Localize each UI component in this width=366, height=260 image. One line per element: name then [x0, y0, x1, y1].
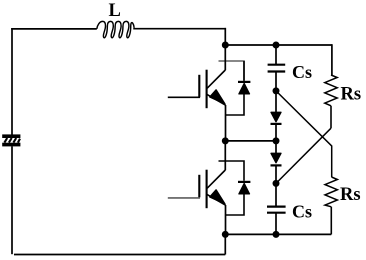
wire mid node to diode D4	[275, 141, 277, 153]
IGBT Q2 body bar	[206, 170, 208, 209]
freewheel diode D1 loop bottom wire	[226, 94, 245, 115]
wire bottom bus y234	[225, 233, 331, 235]
wire top-right horizontal	[134, 28, 226, 29]
junction dot bus-Cs top	[273, 42, 280, 49]
IGBT Q2 collector diagonal	[207, 170, 225, 188]
wire diagonal node B to Rs top	[276, 128, 331, 183]
label L	[109, 1, 121, 21]
capacitor Cs bottom plates	[267, 207, 286, 213]
wire mid horizontal	[225, 140, 276, 142]
wire rail to bottom	[224, 234, 226, 254]
wire left vertical lower	[11, 146, 13, 254]
IGBT Q2 gate lead	[168, 197, 200, 199]
clamp diode D4 cathode bar	[271, 164, 282, 166]
freewheel diode D2 loop top wire	[219, 161, 245, 181]
inductor L	[97, 21, 134, 37]
svg-text:L: L	[109, 1, 121, 21]
junction dot bus-Cs bottom	[273, 231, 280, 238]
freewheel diode D1 triangle	[239, 83, 250, 94]
resistor Rs top zigzag	[325, 75, 337, 106]
wire top bus y45	[225, 44, 332, 46]
wire D3 to mid node	[275, 124, 277, 141]
wire node A to diode D3	[275, 91, 277, 112]
IGBT Q2 gate bar	[198, 175, 200, 198]
wire Q1 emitter vertical	[225, 105, 227, 141]
source element (bottom bar)	[2, 143, 20, 147]
IGBT Q1 emitter diagonal	[207, 94, 226, 105]
wire node B to Cs bottom	[275, 183, 277, 206]
freewheel diode D1 cathode bar	[238, 81, 250, 83]
svg-text:Cs: Cs	[292, 62, 312, 82]
wire center rail mid segment	[224, 141, 226, 170]
wire top-left horizontal	[11, 28, 97, 30]
wire D4 to node B	[275, 166, 277, 184]
label Rs bottom	[340, 185, 361, 205]
source element hatch strokes	[4, 138, 20, 143]
IGBT Q2 emitter arrow	[210, 190, 225, 204]
svg-text:Cs: Cs	[292, 202, 312, 222]
junction dot top rail	[222, 42, 229, 49]
wire Rs top to diag	[330, 106, 332, 128]
IGBT Q1 body bar	[206, 70, 208, 109]
junction dot mid node	[273, 137, 280, 144]
svg-text:Rs: Rs	[340, 185, 361, 205]
freewheel diode D1 loop top wire	[219, 61, 245, 81]
clamp diode D4 triangle	[271, 153, 281, 163]
wire Cs top to node	[275, 72, 277, 92]
svg-text:Rs: Rs	[341, 85, 362, 105]
wire center rail top segment	[224, 28, 226, 70]
IGBT Q1 gate lead	[168, 96, 200, 98]
freewheel diode D2 loop bottom wire	[226, 194, 245, 215]
junction dot node B	[273, 180, 280, 187]
IGBT Q1 collector diagonal	[207, 70, 225, 88]
capacitor Cs top plates	[268, 65, 286, 72]
clamp diode D3 triangle	[271, 112, 281, 122]
capacitor Cs bottom lead	[275, 213, 277, 235]
wire bottom horizontal	[14, 254, 225, 256]
capacitor Cs top lead	[275, 45, 277, 64]
IGBT Q1 gate bar	[198, 75, 200, 98]
label Cs bottom	[292, 202, 312, 222]
freewheel diode D1 branch vertical	[243, 61, 245, 81]
junction dot mid rail	[222, 137, 229, 144]
label Rs top	[341, 85, 362, 105]
source element hatched (top bar)	[2, 134, 20, 138]
wire Q2 emitter vertical	[225, 205, 227, 234]
freewheel diode D2 cathode bar	[238, 181, 250, 183]
clamp diode D3 cathode bar	[271, 123, 282, 125]
resistor Rs bottom zigzag	[325, 177, 337, 207]
wire right branch top	[331, 44, 333, 75]
freewheel diode D2 triangle	[239, 183, 250, 194]
wire Rs bottom lead	[330, 207, 332, 235]
IGBT Q1 emitter arrow	[210, 90, 225, 104]
IGBT Q2 emitter diagonal	[207, 194, 226, 205]
wire left vertical upper	[11, 28, 13, 135]
wire diagonal node A to Rs bottom	[276, 91, 332, 177]
junction dot node A	[273, 87, 280, 94]
label Cs top	[292, 62, 312, 82]
junction dot bottom rail	[222, 231, 229, 238]
